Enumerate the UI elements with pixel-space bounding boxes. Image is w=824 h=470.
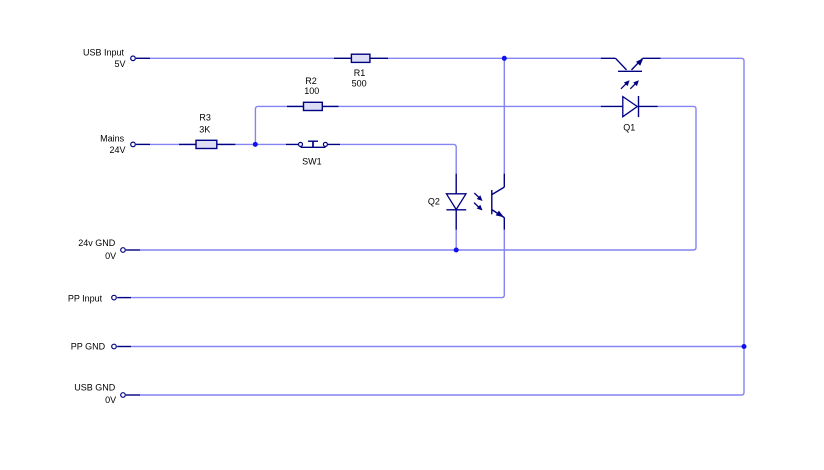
svg-text:Q2: Q2 bbox=[428, 197, 440, 207]
label R3 value 3K bbox=[199, 112, 211, 134]
terminal Mains bbox=[131, 142, 150, 147]
optocoupler Q1 LED bbox=[601, 96, 658, 117]
svg-text:PP GND: PP GND bbox=[71, 341, 106, 351]
wire USB 5V rail from terminal to Q1 collector bbox=[150, 57, 601, 59]
junction on Mains rail at R2 branch bbox=[253, 142, 258, 147]
wire R2 to Q1 LED anode rail bbox=[258, 105, 601, 107]
svg-text:0V: 0V bbox=[105, 395, 116, 405]
optocoupler Q2 light arrows bbox=[474, 193, 483, 211]
svg-text:SW1: SW1 bbox=[302, 157, 322, 167]
switch SW1 bbox=[286, 141, 340, 147]
optocoupler Q1 light arrows bbox=[621, 80, 639, 89]
label USB Input 5V bbox=[83, 47, 126, 69]
svg-text:R2: R2 bbox=[305, 76, 317, 86]
wire Q2 phototransistor emitter down to PP Input rail bbox=[131, 229, 504, 297]
resistor R3 bbox=[179, 140, 235, 148]
svg-text:R1: R1 bbox=[354, 68, 366, 78]
label Mains 24V bbox=[100, 133, 125, 155]
label PP GND bbox=[71, 341, 106, 351]
svg-text:USB Input: USB Input bbox=[83, 47, 125, 57]
svg-text:24v GND: 24v GND bbox=[78, 238, 116, 248]
svg-text:Q1: Q1 bbox=[623, 122, 635, 132]
optocoupler Q1 phototransistor bbox=[601, 58, 661, 71]
label R2 value 100 bbox=[304, 76, 319, 96]
label SW1 bbox=[302, 157, 322, 167]
terminal USB GND bbox=[121, 393, 140, 398]
terminal PP Input bbox=[112, 295, 131, 300]
wire 5V junction down to Q2 phototransistor collector bbox=[503, 58, 505, 174]
terminal USB Input bbox=[131, 56, 150, 61]
label USB GND 0V bbox=[74, 382, 116, 405]
svg-text:24V: 24V bbox=[109, 145, 125, 155]
resistor R2 bbox=[287, 102, 339, 110]
svg-text:Mains: Mains bbox=[100, 133, 125, 143]
label Q2 bbox=[428, 197, 440, 207]
optocoupler Q2 LED bbox=[446, 174, 466, 230]
svg-text:5V: 5V bbox=[114, 59, 125, 69]
resistor R1 bbox=[334, 54, 388, 62]
terminal 24v GND bbox=[121, 248, 140, 253]
svg-text:0V: 0V bbox=[105, 251, 116, 261]
label Q1 bbox=[623, 122, 635, 132]
label R1 value 500 bbox=[352, 68, 367, 89]
junction on PP GND rail at right edge bbox=[742, 344, 747, 349]
svg-text:PP Input: PP Input bbox=[68, 293, 103, 303]
wire Mains rail from terminal to SW1 bbox=[150, 143, 287, 145]
svg-text:100: 100 bbox=[304, 86, 319, 96]
junction on 24v GND rail at Q2 LED bbox=[454, 248, 459, 253]
svg-text:3K: 3K bbox=[199, 125, 210, 135]
label PP Input bbox=[68, 293, 103, 303]
wire PP GND rail bbox=[131, 346, 744, 348]
wire Q2 LED cathode to 24v GND junction bbox=[455, 229, 457, 250]
wire Q1 emitter right, down right edge to USB GND rail bbox=[140, 58, 744, 395]
junction on USB 5V rail at Q2 collector branch bbox=[502, 56, 507, 61]
terminal PP GND bbox=[112, 344, 131, 349]
wire SW1 to Q2 LED anode bbox=[340, 144, 456, 174]
svg-text:500: 500 bbox=[352, 79, 367, 89]
svg-text:USB GND: USB GND bbox=[74, 382, 116, 392]
wire R2 left pin down to Mains junction bbox=[255, 106, 258, 144]
svg-text:R3: R3 bbox=[199, 112, 211, 122]
optocoupler Q2 phototransistor bbox=[492, 174, 505, 230]
wire Q1 LED cathode right, down, left along 24v GND rail bbox=[140, 106, 696, 250]
label 24v GND 0V bbox=[78, 238, 116, 261]
